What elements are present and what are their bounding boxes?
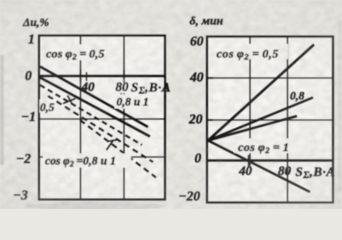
pointer T tick bottom label (107, 140, 120, 151)
left plot frame (39, 36, 165, 200)
right frame tick y=120 (207, 119, 213, 121)
dashed line D1 (40, 85, 142, 145)
left plot gridline x=124 (123, 36, 125, 200)
axis tick x=124 (123, 70, 125, 83)
line L3 (208, 116, 297, 141)
white bg cos phi2=1 (234, 139, 309, 154)
right plot gridline y=40 (207, 77, 333, 79)
scan smudge left edge (0, 55, 4, 165)
line L1 cos phi2=0,5 (208, 45, 314, 141)
left plot gridline y=-1 (39, 118, 165, 120)
white bg cos phi2=0,5 right (215, 44, 288, 59)
left axis tick x=86 (86, 72, 88, 81)
white bg bottom label (43, 154, 131, 168)
right plot gridline x=250 (249, 37, 251, 167)
solid line A cos phi=0.5 upper (40, 67, 148, 128)
right plot zero axis (206, 159, 333, 162)
right plot gridline x=287.5 (287, 37, 289, 203)
white bg 0,5 label (40, 100, 56, 113)
pointer cross tick on D1 (63, 96, 76, 105)
scan smudge right edge (338, 20, 342, 190)
scan smudge bottom edge (25, 202, 165, 210)
solid line B cos phi=0.5 lower (40, 78, 150, 137)
white bg 0,8 и 1 label (115, 95, 157, 109)
right plot gridline y=20 (207, 119, 333, 121)
left plot gridline x=80.5 (80, 36, 82, 200)
left axis tick x=80.5 (80, 70, 82, 82)
line L2 0,8 (208, 98, 313, 141)
right plot frame (207, 37, 333, 203)
dashed line D2 (48, 96, 153, 162)
left plot gridline y=-2 (39, 156, 165, 158)
right axis tick x=248.5 (248, 155, 250, 167)
white bg for cos phi2=0,5 label (44, 45, 108, 61)
right plot paper (207, 36, 333, 203)
line L4 cos phi2=1 (208, 141, 310, 193)
xlabel row bg (111, 79, 164, 93)
left plot zero axis (38, 75, 165, 78)
left plot paper (39, 35, 165, 200)
right frame tick y=78 (207, 77, 213, 79)
dashed line D3 (80, 120, 156, 178)
pointer tick from 0,8 и 1 label (120, 90, 123, 98)
